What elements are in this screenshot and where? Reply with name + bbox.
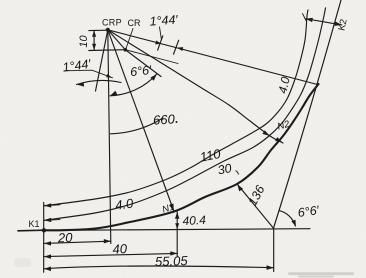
faint bottom band [298,276,334,278]
arrow leader 1deg44 [106,74,112,78]
arc angle 6deg6 upper [110,74,157,96]
wire ray through CR point [108,30,161,77]
svg-text:20: 20 [57,230,74,246]
arrow N2 left [262,130,269,136]
dimension 55.05 line [44,266,274,269]
arrow 4.0 dim right [335,22,342,26]
vertex dot [106,28,110,32]
wire leader from CR label [126,29,133,49]
dimension 10 bottom tick [89,49,126,52]
tail line B start [44,219,60,222]
arrow 40 left [44,254,51,258]
K1 dot [42,228,46,232]
svg-text:CRP: CRP [102,18,122,28]
svg-text:4.0: 4.0 [114,195,135,212]
arrow 40.4 down [175,223,179,229]
svg-text:6°6′: 6°6′ [129,63,152,79]
curve offset B middle [44,8,326,220]
arrow corner arc [291,220,296,227]
arrow C start [44,203,51,207]
tick arrow stroke 2 on chord [174,40,179,54]
svg-text:K1: K1 [29,219,40,229]
arrow 10 top [92,30,96,37]
tick after 30 [236,171,239,175]
660 dot [176,121,178,123]
arrow 20 left [44,241,51,245]
svg-text:660: 660 [153,111,176,127]
extension line x177 at N1 [176,212,178,256]
svg-text:40.4: 40.4 [182,213,206,228]
leader from top 1deg44 label [160,27,162,40]
svg-text:30: 30 [217,161,233,177]
wire tangent T1 at K1 [18,229,44,232]
wire short ray left of vertical [96,30,108,91]
arc angle 6deg6 corner [279,211,295,226]
svg-text:10: 10 [78,35,90,48]
arrow 20 right [104,239,111,243]
wire thin line from CR point [125,50,178,64]
arrow N1 ray [169,204,174,211]
arrow 40.4 up [175,212,179,219]
tail line C start [44,205,60,206]
dimension 40 line [44,253,178,256]
arrow arc1 left [77,82,85,86]
wire ray to N1 [108,30,174,212]
arrow tick2 [177,47,183,51]
arrow 55.05 right [267,265,274,270]
arrow arc2 left [110,91,117,96]
smudge bottom right [288,272,354,275]
arrow arc2 right [150,74,156,81]
arrow N2 right [275,137,282,142]
wire tangent T1 extension to corner [44,229,310,231]
wire ray long chord to K2 [108,30,318,85]
svg-text:40: 40 [112,241,128,257]
extension line x275 corner down [273,228,275,271]
CR point dot [124,48,128,52]
arrow tick1 [155,41,161,45]
arrow 40 right [170,251,177,255]
curve offset C top [44,10,308,206]
arc angle 1deg44 left [77,80,122,84]
svg-text:1°44′: 1°44′ [149,13,179,29]
extension tick beyond C top [303,14,307,22]
svg-text:CR: CR [128,18,141,28]
arrow 55.05 left [44,267,51,272]
dimension 20 line [44,241,111,243]
tick arrow stroke 1 on chord [158,36,163,50]
dimension 4.0 top right line [306,19,342,25]
extension line left x44 [43,203,45,273]
wire tangent T2 from corner through K2 [274,0,342,228]
curve main A K1-N1-N2-K2 [44,84,319,230]
line 136 from corner to curve [237,184,273,228]
arrow 136 [237,184,243,191]
arrow 10 bottom [92,44,96,51]
dimension 10 top tick [89,29,108,31]
leader from left 1deg44 label [64,70,113,78]
arrow 4.0 dim left [306,18,313,22]
arc radius 660 [111,118,163,134]
svg-text:55.05: 55.05 [155,253,189,269]
dimension 10 line [93,30,95,50]
paper mottle [0,0,1,1]
wire ray vertical from vertex [108,30,111,244]
wire ray to N2 [108,30,283,143]
arrow B start [44,218,51,222]
